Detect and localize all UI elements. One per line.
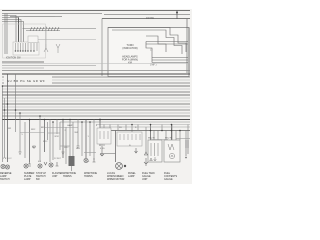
- svg-text:( ): ( ): [150, 49, 152, 52]
- svg-text:LAMP: LAMP: [24, 178, 31, 181]
- svg-text:HORNS: HORNS: [84, 175, 93, 178]
- svg-text:( MF ): ( MF ): [150, 64, 157, 67]
- svg-text:(INDICATOR): (INDICATOR): [122, 47, 137, 50]
- svg-text:4 FS: 4 FS: [100, 148, 105, 150]
- svg-text:BR: BR: [41, 127, 44, 129]
- svg-text:HORNS: HORNS: [63, 175, 72, 178]
- svg-text:IGNITION SW: IGNITION SW: [6, 58, 21, 60]
- svg-text:UNIT: UNIT: [52, 175, 58, 178]
- svg-text:1 8 3 6 2: 1 8 3 6 2: [3, 158, 12, 160]
- svg-text:4W 6W: 4W 6W: [146, 17, 155, 20]
- svg-text:UNIT: UNIT: [142, 178, 148, 181]
- svg-text:NU BR PG SE GR WF: NU BR PG SE GR WF: [7, 79, 45, 83]
- svg-text:12 367: 12 367: [54, 158, 61, 160]
- svg-text:W12 R: W12 R: [165, 138, 172, 140]
- svg-text:LAMP: LAMP: [128, 175, 135, 178]
- svg-text:KM: KM: [128, 62, 132, 65]
- svg-text:WIPER MOTOR: WIPER MOTOR: [107, 178, 125, 181]
- svg-text:SWITCH: SWITCH: [0, 178, 10, 181]
- svg-text:GAUGE: GAUGE: [164, 178, 173, 181]
- svg-text:LAMP: LAMP: [67, 124, 73, 127]
- svg-text:W12: W12: [64, 147, 69, 149]
- svg-text:W12: W12: [43, 141, 48, 143]
- svg-text:W12 R: W12 R: [148, 138, 155, 140]
